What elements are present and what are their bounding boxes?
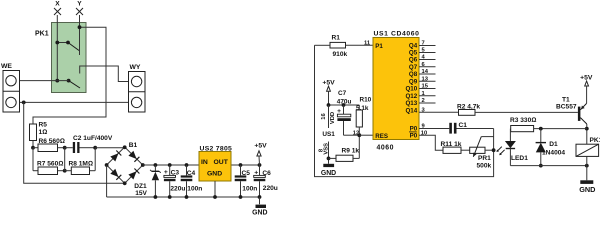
svg-text:15: 15 [422, 84, 429, 90]
svg-text:+5V: +5V [254, 143, 267, 150]
svg-text:Q12: Q12 [405, 93, 417, 100]
node Y branch [78, 25, 82, 29]
svg-text:RES: RES [375, 133, 388, 140]
switch contact 2 [55, 79, 80, 88]
svg-text:500k: 500k [477, 163, 492, 170]
supply +5V (mid-left) [254, 143, 267, 165]
wire WE bottom to WY bottom [16, 101, 131, 103]
svg-text:R10: R10 [360, 97, 372, 104]
preset PR1 [470, 137, 496, 170]
terminal Y [76, 0, 83, 15]
wire X column [56, 15, 58, 81]
svg-text:OUT: OUT [214, 159, 229, 166]
svg-text:GND: GND [579, 185, 595, 194]
svg-text:4060: 4060 [377, 144, 395, 151]
ground (right) [579, 180, 595, 194]
capacitor C5 [235, 163, 258, 199]
svg-text:R7 560Ω: R7 560Ω [37, 160, 63, 167]
svg-text:R5: R5 [39, 122, 48, 129]
transistor T1 [556, 90, 589, 145]
svg-text:Q7: Q7 [409, 64, 418, 71]
pin 8 VSS stub of US1 [319, 142, 331, 164]
wire to bridge AC top [95, 147, 125, 149]
capacitor C4 [181, 163, 203, 199]
svg-text:100n: 100n [187, 185, 202, 192]
diode D1 [536, 129, 566, 168]
svg-text:220u: 220u [263, 185, 278, 192]
diode top-left [110, 153, 118, 161]
resistor R8 [65, 148, 96, 175]
svg-text:Q8: Q8 [409, 71, 418, 78]
svg-text:12: 12 [353, 130, 359, 136]
svg-text:Q14: Q14 [405, 108, 417, 115]
wire AC2 bottom [24, 102, 125, 183]
svg-text:14: 14 [422, 69, 429, 75]
connector WE [1, 63, 20, 112]
svg-text:X: X [55, 0, 60, 7]
zener DZ1 [134, 163, 161, 199]
svg-text:P0: P0 [410, 132, 418, 139]
pin 12 RES wire [359, 134, 373, 136]
wire Y branch to R5 [33, 27, 106, 124]
diode bottom-left [110, 169, 118, 177]
svg-text:WY: WY [130, 64, 141, 71]
svg-text:Q9: Q9 [409, 79, 418, 86]
svg-text:1N4004: 1N4004 [542, 150, 565, 157]
resistor R3 [510, 117, 587, 132]
resistor R5 [30, 122, 48, 150]
ground (US1 VSS) [321, 164, 336, 177]
resistor R9 [329, 135, 360, 161]
wire oscillator loop (R1 column, bottom run, riser to C1/PR1 node) [315, 45, 494, 176]
bridge rectifier B1 [105, 142, 145, 185]
wire switch2 throw to WY top [80, 66, 132, 82]
resistor R10 [356, 97, 372, 137]
svg-text:R8 1MΩ: R8 1MΩ [69, 160, 94, 167]
resistor R6 [33, 138, 67, 151]
resistor R2 [419, 104, 578, 116]
svg-text:Q4: Q4 [409, 43, 418, 50]
svg-text:PR1: PR1 [478, 155, 491, 162]
svg-text:VSS: VSS [324, 143, 330, 155]
terminal X [54, 0, 61, 15]
svg-text:US1 CD4060: US1 CD4060 [374, 31, 420, 38]
svg-text:11: 11 [364, 41, 371, 47]
capacitor C2 [65, 135, 113, 153]
switch contact 1 [55, 41, 79, 51]
regulator US2 7805 [199, 145, 232, 199]
svg-text:PK1: PK1 [590, 137, 600, 144]
svg-text:IN: IN [201, 159, 208, 166]
svg-text:US1: US1 [322, 131, 335, 138]
svg-text:P1: P1 [375, 43, 383, 50]
IC US1 CD4060 [373, 31, 420, 152]
supply rail top [143, 164, 199, 166]
resistor R1 [315, 35, 374, 59]
svg-text:GND: GND [252, 210, 267, 215]
connector WY [129, 64, 146, 112]
node AC2 tap [22, 101, 26, 105]
supply +5V (mid) [322, 80, 335, 105]
svg-text:D1: D1 [549, 141, 558, 148]
diode top-right [128, 151, 136, 159]
pin stubs Q4-Q13 with numbers [419, 41, 436, 114]
svg-text:2: 2 [422, 98, 425, 104]
svg-text:Y: Y [77, 0, 82, 7]
svg-text:GND: GND [321, 170, 336, 177]
ground rail bottom right [510, 165, 586, 167]
svg-text:16: 16 [321, 113, 327, 120]
svg-text:470u: 470u [337, 98, 352, 105]
relay contact box PK1 (left) [35, 23, 86, 93]
svg-text:100n: 100n [242, 185, 257, 192]
svg-text:220u: 220u [170, 186, 185, 193]
wire +5V rail to C7 and R10 [329, 104, 360, 106]
capacitor C7 [337, 90, 360, 135]
svg-text:R3 330Ω: R3 330Ω [510, 117, 536, 124]
resistor R7 [33, 148, 67, 175]
ground (mid-left) [252, 197, 267, 217]
capacitor C1 with pin 9 wire [419, 122, 494, 133]
svg-text:Q6: Q6 [409, 57, 418, 64]
resistor R11 [441, 141, 470, 154]
svg-text:LED1: LED1 [511, 155, 528, 162]
wire Y column [79, 15, 81, 55]
LED LED1 [496, 129, 528, 166]
svg-text:1Ω: 1Ω [39, 129, 48, 136]
svg-text:BC557: BC557 [556, 103, 577, 110]
pin 16 VDD stub of US1 [321, 105, 336, 128]
svg-text:R9 1k: R9 1k [342, 148, 360, 155]
svg-text:R1: R1 [332, 35, 341, 42]
wire DC minus down [106, 165, 108, 197]
svg-text:PK1: PK1 [35, 31, 49, 38]
svg-text:VDD: VDD [330, 112, 336, 124]
svg-text:C2 1uF/400V: C2 1uF/400V [73, 135, 113, 142]
diode bottom-right [128, 171, 136, 179]
svg-text:Q10: Q10 [405, 86, 417, 93]
svg-text:Q13: Q13 [405, 100, 417, 107]
supply +5V (right) [580, 74, 593, 89]
relay coil PK1 (right) [576, 137, 600, 180]
svg-text:13: 13 [422, 76, 429, 82]
svg-text:910k: 910k [333, 51, 348, 58]
svg-text:C7: C7 [338, 90, 347, 97]
capacitor C6 [254, 163, 278, 199]
svg-text:WE: WE [1, 63, 12, 70]
capacitor C3 [164, 163, 186, 199]
svg-text:GND: GND [207, 171, 222, 178]
svg-text:B1: B1 [129, 142, 138, 149]
svg-text:7: 7 [422, 41, 425, 47]
wire WE top to switch [16, 80, 69, 82]
ground rail bottom left [107, 196, 260, 198]
svg-text:Q5: Q5 [409, 50, 418, 57]
svg-text:15V: 15V [135, 190, 147, 197]
